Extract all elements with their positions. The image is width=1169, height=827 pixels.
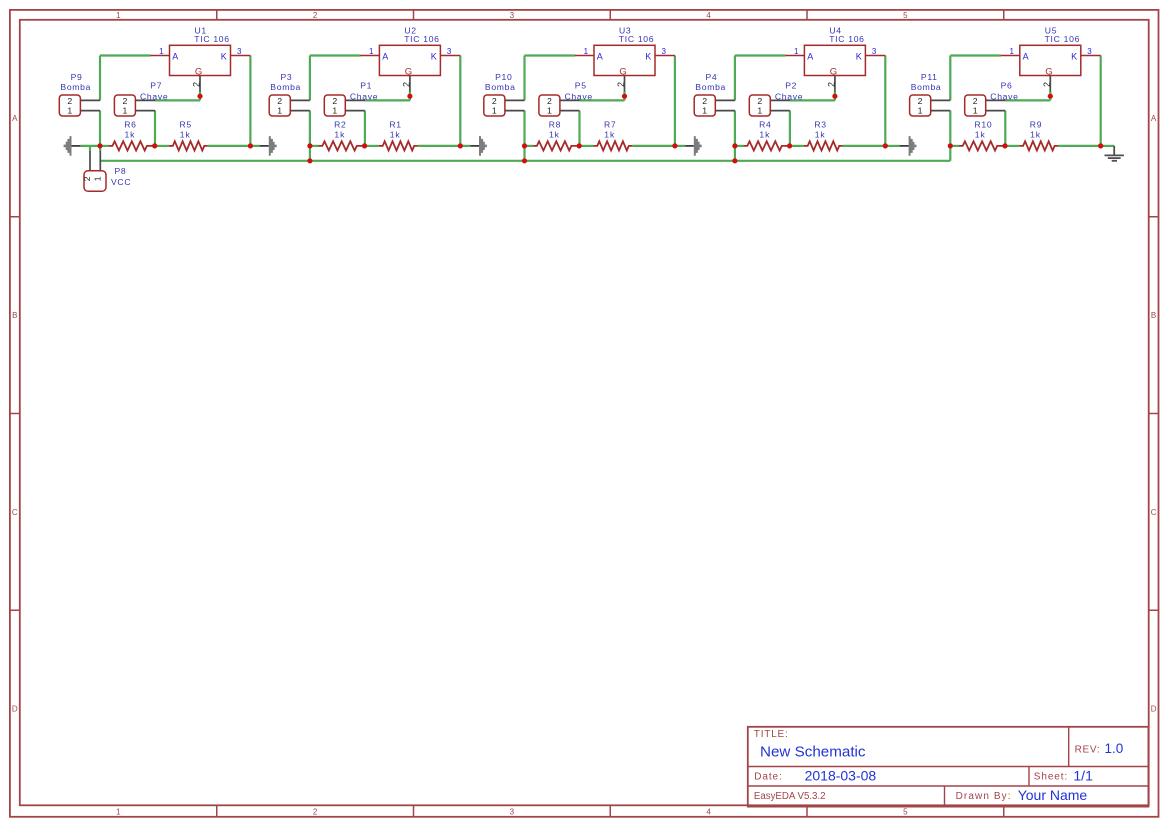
svg-text:A: A [1023, 51, 1029, 61]
svg-text:1: 1 [794, 47, 799, 56]
svg-text:A: A [1151, 114, 1157, 123]
svg-text:G: G [619, 67, 626, 78]
svg-text:1: 1 [584, 47, 589, 56]
svg-text:1: 1 [702, 106, 707, 116]
svg-text:2: 2 [827, 82, 837, 87]
svg-text:P3: P3 [281, 72, 293, 82]
svg-text:1: 1 [1009, 47, 1014, 56]
svg-text:A: A [597, 51, 603, 61]
svg-text:1: 1 [116, 808, 121, 817]
svg-text:TIC 106: TIC 106 [404, 34, 439, 44]
svg-text:2: 2 [918, 96, 923, 106]
svg-text:R8: R8 [549, 120, 561, 130]
svg-text:1: 1 [332, 106, 337, 116]
svg-text:1k: 1k [975, 130, 986, 140]
svg-text:3: 3 [237, 47, 242, 56]
svg-text:Your Name: Your Name [1018, 787, 1088, 803]
svg-text:3: 3 [872, 47, 877, 56]
svg-text:K: K [645, 51, 651, 61]
svg-text:K: K [1071, 51, 1077, 61]
svg-text:3: 3 [662, 47, 667, 56]
svg-text:Bomba: Bomba [485, 82, 516, 92]
svg-text:2018-03-08: 2018-03-08 [805, 767, 877, 783]
svg-text:3: 3 [1087, 47, 1092, 56]
svg-text:R4: R4 [759, 120, 771, 130]
svg-text:Chave: Chave [140, 92, 168, 102]
svg-text:G: G [195, 67, 202, 78]
svg-text:Bomba: Bomba [695, 82, 726, 92]
svg-text:2: 2 [67, 96, 72, 106]
svg-text:P1: P1 [360, 81, 372, 91]
svg-text:1: 1 [116, 11, 121, 20]
svg-text:2: 2 [402, 82, 412, 87]
svg-text:1: 1 [547, 106, 552, 116]
svg-text:A: A [12, 114, 18, 123]
svg-text:TIC 106: TIC 106 [1045, 34, 1080, 44]
svg-text:K: K [221, 51, 227, 61]
svg-text:3: 3 [510, 808, 515, 817]
svg-text:Bomba: Bomba [60, 82, 91, 92]
svg-text:2: 2 [122, 96, 127, 106]
svg-text:1k: 1k [334, 130, 345, 140]
svg-text:TIC 106: TIC 106 [619, 34, 654, 44]
svg-text:2: 2 [547, 96, 552, 106]
svg-text:Drawn By:: Drawn By: [956, 791, 1012, 802]
svg-text:5: 5 [903, 11, 908, 20]
svg-text:B: B [12, 311, 17, 320]
svg-text:REV:: REV: [1075, 745, 1101, 756]
svg-text:5: 5 [903, 808, 908, 817]
svg-text:TITLE:: TITLE: [754, 729, 789, 740]
svg-text:P6: P6 [1001, 81, 1013, 91]
svg-text:A: A [172, 51, 178, 61]
svg-text:2: 2 [277, 96, 282, 106]
svg-text:P8: P8 [115, 166, 127, 176]
svg-text:EasyEDA V5.3.2: EasyEDA V5.3.2 [754, 791, 826, 802]
svg-text:R5: R5 [180, 120, 192, 130]
svg-text:K: K [856, 51, 862, 61]
svg-text:4: 4 [706, 808, 711, 817]
svg-text:Sheet:: Sheet: [1034, 771, 1068, 782]
svg-text:1.0: 1.0 [1105, 741, 1124, 756]
svg-text:1k: 1k [549, 130, 560, 140]
svg-text:P5: P5 [575, 81, 587, 91]
svg-text:4: 4 [706, 11, 711, 20]
svg-text:1: 1 [277, 106, 282, 116]
svg-text:Bomba: Bomba [911, 82, 942, 92]
svg-text:1: 1 [492, 106, 497, 116]
svg-text:1: 1 [369, 47, 374, 56]
svg-text:Bomba: Bomba [270, 82, 301, 92]
svg-text:G: G [405, 67, 412, 78]
svg-text:Date:: Date: [754, 771, 782, 782]
svg-text:R9: R9 [1030, 120, 1042, 130]
svg-text:1k: 1k [815, 130, 826, 140]
svg-text:G: G [1045, 67, 1052, 78]
svg-text:G: G [830, 67, 837, 78]
svg-text:Chave: Chave [990, 92, 1018, 102]
svg-text:C: C [12, 508, 18, 517]
svg-text:TIC 106: TIC 106 [829, 34, 864, 44]
svg-text:D: D [1151, 705, 1157, 714]
svg-text:2: 2 [313, 808, 318, 817]
svg-text:2: 2 [702, 96, 707, 106]
svg-text:1/1: 1/1 [1073, 767, 1093, 783]
svg-text:2: 2 [82, 176, 92, 181]
svg-text:P11: P11 [921, 72, 938, 82]
svg-text:1: 1 [67, 106, 72, 116]
svg-text:R3: R3 [814, 120, 826, 130]
svg-text:2: 2 [332, 96, 337, 106]
svg-text:VCC: VCC [111, 177, 131, 187]
svg-text:R6: R6 [124, 120, 136, 130]
svg-text:A: A [807, 51, 813, 61]
svg-text:2: 2 [492, 96, 497, 106]
svg-text:2: 2 [757, 96, 762, 106]
svg-text:1k: 1k [180, 130, 191, 140]
svg-text:Chave: Chave [775, 92, 803, 102]
svg-text:1: 1 [122, 106, 127, 116]
svg-text:1k: 1k [604, 130, 615, 140]
svg-text:1k: 1k [125, 130, 136, 140]
svg-text:1: 1 [757, 106, 762, 116]
svg-text:3: 3 [510, 11, 515, 20]
svg-text:2: 2 [313, 11, 318, 20]
svg-text:1k: 1k [759, 130, 770, 140]
svg-text:R2: R2 [334, 120, 346, 130]
svg-text:1: 1 [973, 106, 978, 116]
svg-text:TIC 106: TIC 106 [194, 34, 229, 44]
svg-text:R10: R10 [975, 120, 993, 130]
svg-text:P10: P10 [495, 72, 512, 82]
svg-text:P7: P7 [150, 81, 162, 91]
svg-text:Chave: Chave [565, 92, 593, 102]
svg-text:R1: R1 [389, 120, 401, 130]
svg-text:New Schematic: New Schematic [760, 744, 866, 761]
svg-text:2: 2 [192, 82, 202, 87]
svg-text:P2: P2 [785, 81, 797, 91]
svg-text:1k: 1k [390, 130, 401, 140]
svg-text:B: B [1151, 311, 1156, 320]
svg-text:P9: P9 [71, 72, 83, 82]
svg-text:P4: P4 [706, 72, 718, 82]
svg-text:3: 3 [447, 47, 452, 56]
svg-text:1: 1 [918, 106, 923, 116]
svg-text:A: A [382, 51, 388, 61]
svg-text:2: 2 [616, 82, 626, 87]
svg-text:K: K [431, 51, 437, 61]
svg-text:2: 2 [1042, 82, 1052, 87]
svg-text:Chave: Chave [350, 92, 378, 102]
svg-text:1: 1 [92, 176, 102, 181]
svg-text:R7: R7 [604, 120, 616, 130]
svg-text:D: D [12, 705, 18, 714]
svg-text:1: 1 [159, 47, 164, 56]
svg-text:2: 2 [973, 96, 978, 106]
svg-text:1k: 1k [1030, 130, 1041, 140]
svg-text:C: C [1151, 508, 1157, 517]
